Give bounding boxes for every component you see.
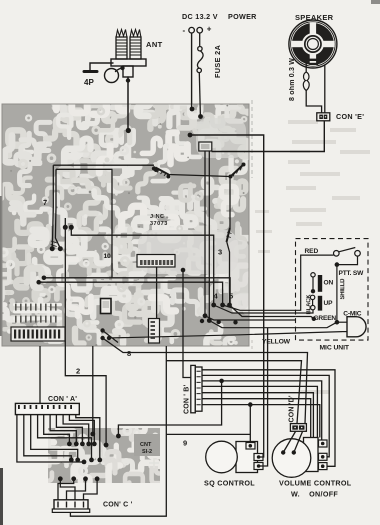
wire shield node to mic [337, 321, 347, 323]
svg-text:7: 7 [43, 198, 47, 207]
pot VR2 body [236, 442, 258, 473]
connector CON 'D' [290, 424, 306, 432]
svg-text:VOLUME CONTROL: VOLUME CONTROL [279, 479, 352, 488]
wire pads row to 4 [44, 278, 230, 305]
PTT switch pole [334, 251, 340, 257]
wire B: x166 tee to CON D right pin [166, 361, 301, 424]
svg-text:DC 13.2 V: DC 13.2 V [182, 12, 218, 21]
wire from white connector going right [204, 152, 206, 316]
junction dots on PCB [63, 225, 68, 230]
DC power terminals [189, 27, 203, 33]
terminal minus [189, 27, 195, 33]
corner smudge top right [371, 0, 380, 4]
UP button bar [318, 296, 322, 311]
scan ghost marks right margin [255, 120, 370, 394]
svg-text:POWER: POWER [228, 12, 257, 21]
svg-text:PTT. SW: PTT. SW [339, 270, 365, 277]
node on PCB [198, 114, 203, 119]
component: PCB edge connector strip bottom left [11, 327, 65, 341]
pad rows above edge connector [13, 303, 62, 320]
component: vertical pin connector on PCB bottom [149, 319, 160, 344]
node on p3 [219, 379, 224, 384]
wire green into box [296, 317, 314, 319]
base flange [111, 59, 146, 66]
svg-text:CNT: CNT [140, 442, 152, 448]
wire: PCB pad to speaker line going down right side [190, 135, 264, 410]
svg-text:ANT: ANT [146, 40, 163, 49]
svg-text:SPEAKER: SPEAKER [295, 13, 334, 22]
svg-text:GREEN: GREEN [314, 315, 337, 322]
wire white connector down [156, 267, 158, 319]
antenna ANT [111, 30, 146, 78]
svg-text:CON 'D': CON 'D' [289, 395, 296, 422]
svg-text:5: 5 [229, 292, 233, 301]
CON B harness wires [118, 370, 335, 467]
connector CON 'A' housing [15, 403, 79, 414]
faint dashed registration line [251, 100, 253, 178]
wire y434 tee [166, 433, 250, 435]
node black junction [311, 289, 315, 293]
terminal plus [197, 27, 203, 33]
wire green lead [205, 316, 296, 320]
junction dots (cable solder pads) [211, 303, 216, 308]
svg-text:RED: RED [305, 248, 319, 255]
pot VR1 shaft circle [272, 439, 311, 478]
threaded stub [123, 66, 133, 77]
solder nodes on patch row 1 [67, 442, 97, 447]
speaker left lead with sleeve [303, 62, 321, 113]
svg-text:SQ CONTROL: SQ CONTROL [204, 479, 255, 488]
switch contact circle upper [311, 273, 315, 277]
speaker right lead [324, 65, 326, 114]
svg-text:CON' C ': CON' C ' [103, 502, 133, 509]
twisted pair jumper J3 left [53, 165, 56, 207]
coil zigzag tops [116, 30, 127, 38]
shield drain vertical [336, 265, 338, 323]
svg-text:CON 'E': CON 'E' [336, 112, 364, 121]
4P ground lug wire [84, 63, 113, 72]
electret mic C-MIC [347, 317, 366, 337]
ON chain verticals [312, 277, 314, 289]
wires into SQ lugs [260, 328, 268, 466]
pot VR2 shaft circle [206, 441, 238, 473]
SQ side lug 2 [254, 463, 263, 470]
wire red lead [223, 305, 296, 310]
node shield junction bottom [335, 320, 340, 325]
wire to ON button chain [296, 310, 313, 313]
wire CON E to PCB component [212, 121, 325, 152]
nodes from PCB feeds [104, 443, 109, 448]
svg-text:C-MIC: C-MIC [343, 310, 361, 317]
drop from p3 to patch [118, 381, 221, 436]
svg-text:9: 9 [183, 439, 187, 448]
component: small relay box on PCB left [101, 299, 112, 314]
svg-text:FUSE 2A: FUSE 2A [213, 45, 222, 78]
connector CON 'C' [52, 500, 89, 513]
svg-text:37073: 37073 [150, 221, 168, 227]
svg-text:4P: 4P [84, 78, 94, 87]
wire shield lead [209, 321, 295, 328]
volume lug 3 [319, 463, 328, 470]
svg-text:+: + [207, 25, 212, 34]
svg-text:J NC: J NC [150, 214, 165, 220]
wire from pad A down left column [64, 218, 66, 227]
connector CON 'E' [317, 113, 330, 121]
switch terminals inside circle [281, 450, 285, 454]
svg-text:8 ohm 0.3 W: 8 ohm 0.3 W [289, 58, 296, 101]
svg-text:UP: UP [324, 300, 334, 307]
wire yellow to mic lower lug [342, 331, 347, 333]
jumper J1 (hatched) [156, 168, 169, 175]
wire red riser to PTT switch [296, 255, 334, 310]
svg-text:2: 2 [76, 367, 80, 376]
node pad [188, 133, 193, 138]
wire J2 down to pad 5 [229, 177, 231, 229]
SQ top lug [246, 443, 255, 450]
svg-text:CON ' A': CON ' A' [48, 396, 77, 403]
antenna feed wire [127, 77, 129, 130]
PTT switch lever [339, 248, 356, 252]
svg-text:YELLOW: YELLOW [262, 338, 291, 345]
svg-text:SHIELD: SHIELD [340, 278, 346, 300]
jumper J2 (hatched) [231, 165, 244, 177]
wire throw down to shield node [337, 256, 358, 264]
switch wires to CON D [283, 432, 302, 453]
svg-text:CON ' B': CON ' B' [184, 384, 191, 414]
svg-text:W. ON/OFF: W. ON/OFF [291, 490, 338, 499]
volume lug 1 [319, 440, 328, 447]
volume lug 2 [319, 453, 328, 460]
wire shield lead to drain node [296, 322, 337, 328]
connector CON 'B' [191, 365, 202, 412]
wire pair to antenna jumpers [53, 164, 154, 166]
CON A harness wires [17, 415, 100, 462]
svg-text:MIC UNIT: MIC UNIT [320, 344, 350, 351]
component: white DIP connector on PCB [137, 255, 175, 268]
pot VR1 body [304, 438, 319, 472]
drop from p7 to SQ top tab [249, 405, 251, 444]
solder nodes on patch row 2 [69, 458, 102, 465]
node on PCB [190, 107, 195, 112]
wire pad B right then down [71, 227, 213, 304]
CON C cross wires [58, 479, 97, 500]
wire yellow lead [109, 332, 342, 338]
wire diag pad to CON D feed (A-wire) [103, 338, 308, 424]
SQ side lug 1 [254, 454, 263, 461]
fuse F1 2A [197, 33, 203, 116]
jumper J5 (hatched) on vertical [227, 228, 230, 242]
mic unit dashed enclosure [296, 239, 369, 341]
wire black lead 1 [214, 305, 296, 313]
wire: minus terminal to PCB [191, 33, 193, 109]
wire PCB to patch [92, 346, 94, 434]
lower PCB photo patch [44, 424, 164, 487]
dark smudge left bottom edge [0, 468, 3, 525]
wire black lead 2 [230, 305, 296, 317]
wire PCB to CON A [39, 346, 41, 405]
speaker SP1 [289, 20, 337, 68]
svg-text:10: 10 [104, 253, 111, 260]
coax pigtail loop [116, 68, 123, 72]
wire x166 CON C loop [70, 346, 166, 516]
node: antenna feed pad [126, 128, 131, 133]
switch contact circle low [311, 305, 315, 309]
wire J1 to J2 [169, 175, 231, 177]
ON button bar [318, 275, 322, 292]
svg-text:SI-2: SI-2 [142, 449, 152, 455]
coil bodies [116, 37, 127, 59]
svg-text:-: - [183, 26, 186, 35]
CON C feed nodes at patch bottom [58, 476, 100, 481]
node green junction [312, 317, 316, 321]
svg-text:ON: ON [324, 280, 334, 287]
PTT switch throw [355, 251, 361, 257]
switch contact circle mid [310, 295, 314, 299]
component: PCB plug for CON E [199, 142, 212, 151]
node on p7 [248, 402, 253, 407]
svg-text:BLACK: BLACK [306, 294, 312, 315]
main PCB photo area [0, 100, 253, 350]
node shield junction top [335, 262, 340, 267]
svg-text:8: 8 [127, 349, 131, 358]
svg-text:3: 3 [218, 248, 222, 257]
short diag stub [103, 331, 118, 343]
